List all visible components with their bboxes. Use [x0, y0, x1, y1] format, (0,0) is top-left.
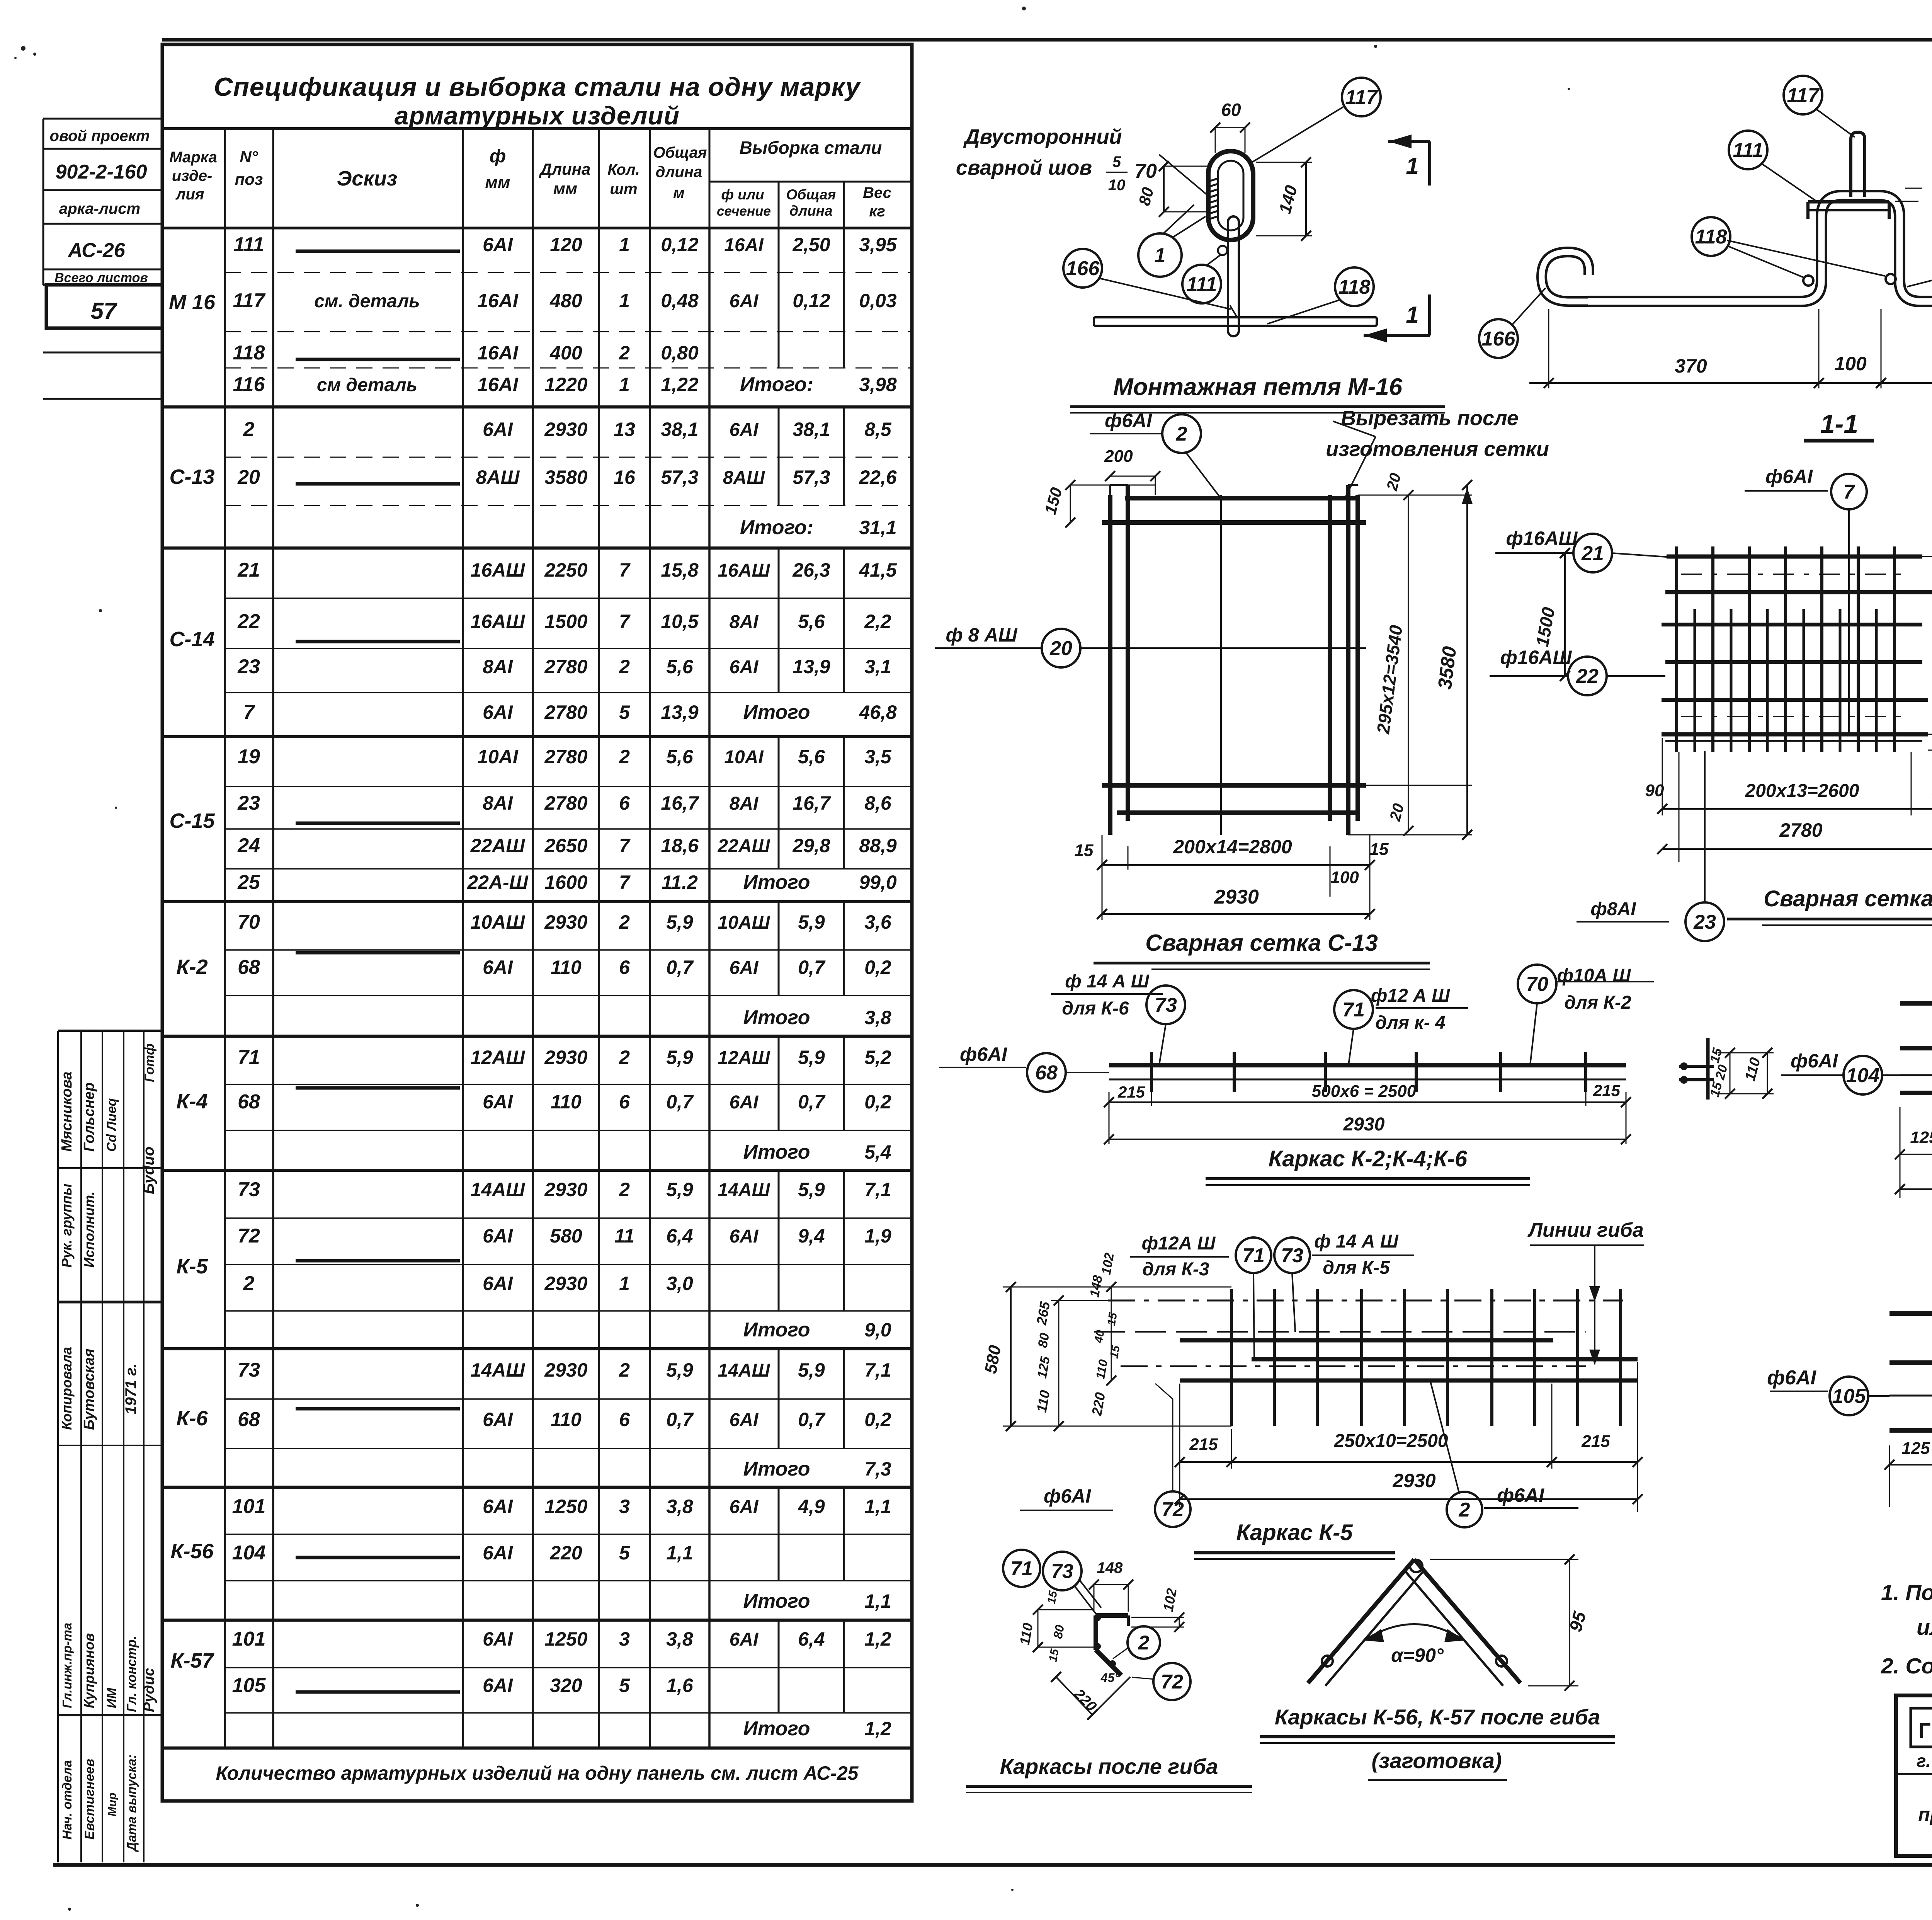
- svg-text:Сd Лueq: Сd Лueq: [104, 1098, 119, 1152]
- svg-text:Выборка стали: Выборка стали: [740, 138, 882, 158]
- svg-text:шт: шт: [610, 180, 637, 197]
- svg-text:1,2: 1,2: [864, 1718, 891, 1740]
- svg-text:7,3: 7,3: [864, 1458, 891, 1480]
- svg-text:Рук. группы: Рук. группы: [59, 1183, 75, 1268]
- svg-text:0,03: 0,03: [859, 290, 897, 311]
- svg-text:57,3: 57,3: [793, 466, 830, 488]
- svg-text:7: 7: [1844, 481, 1855, 503]
- svg-text:ф 8 АШ: ф 8 АШ: [946, 624, 1018, 646]
- K-246 bottom dims: [1104, 1081, 1631, 1144]
- svg-text:6АI: 6АI: [483, 957, 513, 978]
- label chevron: [1260, 1705, 1615, 1780]
- svg-text:ф6АI: ф6АI: [1791, 1050, 1838, 1072]
- svg-text:Итого: Итого: [743, 1717, 810, 1740]
- C-14 right dims: [1922, 519, 1932, 755]
- svg-text:38,1: 38,1: [793, 419, 830, 440]
- svg-text:Нач. отдела: Нач. отдела: [60, 1760, 74, 1840]
- svg-text:Итого: Итого: [743, 871, 810, 894]
- svg-text:68: 68: [238, 1408, 260, 1431]
- svg-text:9,4: 9,4: [798, 1225, 825, 1247]
- svg-text:Всего листов: Всего листов: [54, 271, 148, 285]
- svg-text:3580: 3580: [544, 466, 587, 488]
- svg-text:Эскиз: Эскиз: [337, 167, 398, 190]
- svg-text:29,8: 29,8: [792, 835, 830, 856]
- svg-text:Вырезать после: Вырезать после: [1341, 407, 1519, 430]
- svg-text:71: 71: [1242, 1244, 1265, 1267]
- svg-text:3: 3: [619, 1496, 630, 1517]
- svg-text:6АI: 6АI: [730, 420, 759, 440]
- svg-text:15: 15: [1370, 840, 1389, 859]
- svg-text:2930: 2930: [544, 1179, 587, 1200]
- svg-text:6АI: 6АI: [730, 291, 759, 311]
- svg-text:(заготовка): (заготовка): [1371, 1748, 1502, 1773]
- svg-text:118: 118: [1338, 276, 1371, 298]
- svg-text:1250: 1250: [544, 1496, 587, 1517]
- upper-left stamp boxes: [43, 119, 162, 399]
- svg-text:148: 148: [1097, 1559, 1123, 1576]
- C-14 bottom dims: [1645, 738, 1932, 862]
- svg-text:6АI: 6АI: [483, 1675, 513, 1696]
- svg-text:овой проект: овой проект: [50, 128, 150, 145]
- svg-text:Евстигнеев: Евстигнеев: [82, 1759, 97, 1840]
- svg-text:2930: 2930: [1392, 1470, 1435, 1491]
- table header cells: [169, 129, 912, 228]
- svg-text:46,8: 46,8: [859, 701, 897, 723]
- svg-text:70: 70: [238, 911, 260, 933]
- chevron K-56 K-57 after bending: [1308, 1554, 1590, 1691]
- K-5 bottom dims: [1175, 1362, 1643, 1512]
- svg-text:0,7: 0,7: [666, 957, 694, 978]
- welded mesh C-13 figure: [1102, 485, 1366, 835]
- svg-text:16: 16: [614, 466, 636, 488]
- note 20 mm: [1895, 144, 1932, 227]
- svg-text:Количество арматурных изделий: Количество арматурных изделий на одну па…: [216, 1762, 859, 1784]
- svg-text:1: 1: [1155, 244, 1166, 267]
- svg-text:8,6: 8,6: [864, 792, 892, 814]
- svg-text:5,6: 5,6: [666, 746, 694, 768]
- M-16 callout 166: [1063, 249, 1231, 309]
- svg-text:90: 90: [1645, 781, 1664, 800]
- svg-text:2930: 2930: [1343, 1114, 1385, 1135]
- svg-text:111: 111: [233, 233, 264, 256]
- C-13 dim 150 (left): [1041, 480, 1155, 528]
- svg-text:ф 14 А Ш: ф 14 А Ш: [1314, 1231, 1399, 1252]
- K-5 callout 72: [1020, 1384, 1190, 1527]
- svg-text:250х10=2500: 250х10=2500: [1334, 1431, 1448, 1451]
- svg-text:2: 2: [243, 1272, 255, 1295]
- svg-text:2780: 2780: [544, 656, 587, 677]
- svg-text:2. Совместно с настоящим листо: 2. Совместно с настоящим листом см. лист…: [1881, 1654, 1932, 1678]
- svg-text:арка-лист: арка-лист: [59, 200, 140, 217]
- svg-text:7: 7: [619, 559, 631, 581]
- svg-text:220: 220: [549, 1542, 582, 1564]
- svg-text:2: 2: [243, 418, 255, 441]
- svg-text:5: 5: [619, 1675, 630, 1696]
- svg-text:12АШ: 12АШ: [471, 1047, 526, 1068]
- svg-text:38,1: 38,1: [661, 419, 698, 440]
- svg-text:0,7: 0,7: [666, 1409, 694, 1430]
- svg-text:С-15: С-15: [169, 809, 215, 832]
- svg-text:3,0: 3,0: [666, 1273, 693, 1294]
- svg-text:Итого: Итого: [743, 1141, 810, 1163]
- svg-text:6АI: 6АI: [483, 1496, 513, 1517]
- svg-text:6АI: 6АI: [483, 701, 513, 723]
- svg-text:110: 110: [551, 1409, 582, 1430]
- svg-text:6АI: 6АI: [730, 1629, 759, 1650]
- table group С-15: [162, 737, 912, 902]
- svg-text:для К-5: для К-5: [1323, 1258, 1390, 1278]
- svg-text:13,9: 13,9: [661, 701, 699, 723]
- svg-text:100: 100: [1330, 868, 1359, 887]
- svg-text:Линии гиба: Линии гиба: [1527, 1219, 1644, 1241]
- svg-text:длина: длина: [656, 163, 702, 180]
- svg-text:3,8: 3,8: [864, 1007, 891, 1028]
- svg-text:7,1: 7,1: [864, 1179, 891, 1200]
- svg-text:Итого: Итого: [743, 1458, 810, 1480]
- svg-text:8АI: 8АI: [483, 792, 513, 814]
- svg-text:3,5: 3,5: [864, 746, 892, 768]
- svg-text:7: 7: [619, 835, 631, 856]
- svg-text:Двусторонний: Двусторонний: [963, 125, 1122, 148]
- svg-text:110: 110: [551, 1091, 582, 1113]
- svg-text:5,6: 5,6: [666, 656, 694, 677]
- svg-text:580: 580: [550, 1225, 582, 1247]
- svg-text:0,80: 0,80: [661, 342, 699, 364]
- svg-text:0,2: 0,2: [864, 957, 891, 978]
- svg-text:2: 2: [1176, 423, 1187, 445]
- svg-text:1,22: 1,22: [661, 374, 699, 395]
- svg-text:3,8: 3,8: [666, 1496, 693, 1517]
- svg-text:5,9: 5,9: [798, 1179, 825, 1200]
- svg-text:57: 57: [91, 298, 117, 324]
- svg-text:Готф: Готф: [142, 1043, 157, 1082]
- svg-text:1,6: 1,6: [666, 1675, 694, 1696]
- svg-text:166: 166: [1482, 328, 1516, 350]
- svg-text:мм: мм: [485, 173, 510, 192]
- 1-1 callout 117: [1784, 76, 1855, 137]
- svg-text:10АI: 10АI: [477, 746, 519, 768]
- C-14 callout 22: [1490, 647, 1665, 695]
- svg-text:104: 104: [1846, 1064, 1880, 1087]
- frame K-57 figure: [1889, 1300, 1932, 1445]
- svg-text:5,6: 5,6: [798, 746, 825, 768]
- svg-text:117: 117: [1787, 84, 1820, 107]
- svg-text:14АШ: 14АШ: [718, 1360, 770, 1381]
- svg-text:Каркас К-2;К-4;К-6: Каркас К-2;К-4;К-6: [1269, 1146, 1468, 1171]
- svg-text:166: 166: [1066, 257, 1100, 280]
- left signature stamp grid: [58, 1031, 162, 1862]
- svg-text:изде-: изде-: [172, 167, 213, 184]
- svg-text:120: 120: [550, 234, 582, 255]
- svg-text:22,6: 22,6: [859, 466, 897, 488]
- svg-text:14АШ: 14АШ: [718, 1180, 770, 1200]
- svg-text:13,9: 13,9: [793, 656, 830, 677]
- svg-text:Каркасы после гиба: Каркасы после гиба: [1000, 1754, 1218, 1779]
- svg-text:2780: 2780: [544, 746, 587, 768]
- svg-text:см деталь: см деталь: [317, 375, 417, 395]
- svg-text:26,3: 26,3: [792, 559, 830, 581]
- svg-text:25: 25: [237, 871, 260, 894]
- svg-text:6,4: 6,4: [666, 1225, 693, 1247]
- svg-text:1220: 1220: [544, 374, 587, 395]
- svg-text:16АШ: 16АШ: [471, 559, 526, 581]
- svg-text:Мясникова: Мясникова: [59, 1072, 75, 1152]
- svg-text:68: 68: [238, 956, 260, 979]
- svg-text:Рудис: Рудис: [141, 1668, 157, 1712]
- C-14 label: [1727, 886, 1932, 925]
- svg-text:6АI: 6АI: [483, 1542, 513, 1564]
- svg-text:8АI: 8АI: [730, 612, 759, 632]
- C-13 callout 20: [935, 624, 1102, 667]
- svg-text:ф16АШ: ф16АШ: [1500, 647, 1572, 668]
- svg-text:Итого: Итого: [743, 701, 810, 723]
- svg-text:6АI: 6АI: [483, 1628, 513, 1650]
- svg-text:ф10А Ш: ф10А Ш: [1557, 965, 1631, 986]
- K-246 callout 71: [1334, 986, 1468, 1065]
- K-57 callout 105: [1767, 1367, 1889, 1415]
- svg-text:8АШ: 8АШ: [476, 466, 520, 488]
- svg-text:3: 3: [619, 1628, 630, 1650]
- svg-text:2: 2: [619, 746, 630, 768]
- svg-text:Итого:: Итого:: [740, 516, 813, 539]
- svg-text:К-56: К-56: [170, 1540, 214, 1563]
- svg-text:7: 7: [243, 701, 255, 723]
- table title: [214, 72, 861, 130]
- M-16 callout 111: [1182, 255, 1221, 303]
- svg-text:2: 2: [619, 911, 630, 933]
- svg-text:23: 23: [1693, 911, 1716, 933]
- svg-text:1250: 1250: [544, 1628, 587, 1650]
- svg-text:41,5: 41,5: [859, 559, 897, 581]
- K-246 callout 70: [1518, 965, 1654, 1065]
- svg-text:45°: 45°: [1100, 1671, 1120, 1685]
- C-14 dim 1500 left: [1532, 548, 1570, 681]
- svg-text:99,0: 99,0: [859, 871, 897, 893]
- svg-text:12АШ: 12АШ: [718, 1048, 770, 1068]
- C-14 callout 23: [1577, 751, 1724, 941]
- svg-text:15,8: 15,8: [661, 559, 699, 581]
- svg-text:215: 215: [1189, 1435, 1218, 1454]
- M-16 dim 60: [1210, 100, 1250, 153]
- svg-text:К-2: К-2: [176, 955, 207, 979]
- svg-text:Итого: Итого: [743, 1590, 810, 1612]
- svg-text:для К-2: для К-2: [1564, 992, 1631, 1013]
- svg-text:0,7: 0,7: [666, 1091, 694, 1113]
- svg-text:5,9: 5,9: [666, 1179, 693, 1200]
- K-5 label: [1194, 1520, 1395, 1559]
- svg-text:Сварная сетка С-13: Сварная сетка С-13: [1145, 930, 1378, 956]
- svg-text:0,48: 0,48: [661, 290, 699, 311]
- svg-text:8АI: 8АI: [483, 656, 513, 677]
- svg-text:6АI: 6АI: [483, 419, 513, 440]
- table group С-14: [162, 548, 912, 737]
- specification table outer frame: [162, 44, 912, 1801]
- svg-text:118: 118: [233, 342, 265, 364]
- 1-1 bottom dims 370 100 370: [1529, 309, 1932, 388]
- section mark 1 bottom: [1364, 294, 1430, 342]
- svg-text:2930: 2930: [544, 1047, 587, 1068]
- svg-text:ф6АI: ф6АI: [1765, 466, 1813, 487]
- svg-text:2250: 2250: [544, 559, 587, 581]
- C-13 right dims: [1348, 480, 1473, 840]
- svg-text:110: 110: [551, 957, 582, 978]
- svg-text:6АI: 6АI: [483, 1091, 513, 1113]
- svg-text:72: 72: [1162, 1498, 1184, 1521]
- svg-text:14АШ: 14АШ: [471, 1179, 526, 1200]
- svg-text:поз: поз: [235, 170, 263, 188]
- M-16 dim 80: [1135, 161, 1207, 217]
- svg-text:71: 71: [1342, 999, 1365, 1021]
- svg-text:5,4: 5,4: [864, 1141, 891, 1163]
- svg-text:68: 68: [238, 1091, 260, 1113]
- C-13 dim 200 (top): [1104, 447, 1160, 495]
- K-5 callout 71 73: [1130, 1231, 1414, 1359]
- svg-text:0,2: 0,2: [864, 1091, 891, 1113]
- title block frame: [1896, 1695, 1932, 1856]
- svg-text:40: 40: [1092, 1329, 1107, 1345]
- K-56 bottom dims: [1895, 1107, 1932, 1198]
- svg-text:кг: кг: [869, 203, 885, 220]
- table group М 16: [162, 228, 912, 407]
- svg-text:ф или: ф или: [721, 187, 764, 203]
- svg-text:Общая: Общая: [653, 144, 707, 161]
- svg-text:73: 73: [238, 1359, 260, 1381]
- table footer note row: [216, 1762, 859, 1784]
- svg-text:6АI: 6АI: [483, 1273, 513, 1294]
- svg-text:3,1: 3,1: [864, 656, 891, 677]
- K-57 bottom dims: [1884, 1433, 1932, 1507]
- svg-text:68: 68: [1035, 1062, 1058, 1084]
- svg-text:0,7: 0,7: [798, 957, 826, 978]
- svg-text:370: 370: [1675, 355, 1707, 377]
- M-16 callout 117: [1252, 78, 1381, 162]
- svg-text:16АШ: 16АШ: [718, 560, 770, 581]
- svg-text:8АШ: 8АШ: [723, 468, 765, 488]
- svg-text:ф12 А Ш: ф12 А Ш: [1371, 986, 1450, 1006]
- svg-text:7: 7: [619, 871, 631, 893]
- section mark 1 top: [1388, 134, 1430, 186]
- section 1-1 bent bar figure: [1588, 132, 1932, 301]
- svg-text:60: 60: [1221, 100, 1241, 120]
- svg-text:16,7: 16,7: [793, 792, 831, 814]
- svg-text:Гольснер: Гольснер: [81, 1083, 97, 1152]
- svg-text:73: 73: [1051, 1560, 1073, 1583]
- svg-text:125: 125: [1901, 1439, 1930, 1458]
- svg-text:111: 111: [1733, 139, 1763, 162]
- table group К-57: [162, 1620, 912, 1748]
- svg-text:Сварная сетка С-14: Сварная сетка С-14: [1764, 886, 1932, 911]
- svg-text:Вес: Вес: [863, 184, 891, 201]
- svg-text:1. Позиция 111 приваривается к: 1. Позиция 111 приваривается к петле сва…: [1881, 1580, 1932, 1605]
- svg-text:57,3: 57,3: [661, 466, 699, 488]
- svg-text:101: 101: [232, 1495, 266, 1518]
- svg-text:80: 80: [1035, 1332, 1052, 1349]
- svg-text:19: 19: [238, 746, 260, 768]
- svg-text:ф6АI: ф6АI: [1105, 410, 1152, 431]
- svg-text:1500: 1500: [544, 611, 587, 632]
- svg-text:5,2: 5,2: [864, 1047, 891, 1068]
- svg-text:6АI: 6АI: [730, 1092, 759, 1113]
- table body vertical gridlines: [225, 228, 709, 1748]
- svg-text:ф8АI: ф8АI: [1590, 899, 1636, 919]
- svg-text:2,50: 2,50: [792, 234, 830, 255]
- C-13 cut note: [1326, 407, 1549, 499]
- title block org name: [1911, 1708, 1932, 1850]
- svg-text:ф6АI: ф6АI: [960, 1043, 1007, 1065]
- svg-text:117: 117: [1345, 86, 1378, 109]
- svg-text:Дата выпуска:: Дата выпуска:: [124, 1755, 139, 1853]
- svg-text:М 16: М 16: [169, 291, 216, 314]
- svg-text:116: 116: [233, 373, 265, 396]
- svg-text:2: 2: [1138, 1632, 1150, 1654]
- svg-text:6: 6: [619, 1409, 630, 1430]
- svg-text:22: 22: [237, 610, 260, 633]
- svg-text:1,9: 1,9: [864, 1225, 891, 1247]
- svg-text:6,4: 6,4: [798, 1628, 825, 1650]
- svg-text:5: 5: [1112, 153, 1121, 170]
- frame K-2 K-4 K-6 figure: [1109, 1052, 1626, 1092]
- svg-text:215: 215: [1593, 1081, 1621, 1100]
- svg-text:500х6 = 2500: 500х6 = 2500: [1312, 1082, 1417, 1101]
- M-16 figure label: [1070, 374, 1445, 413]
- svg-text:6АI: 6АI: [730, 1226, 759, 1247]
- svg-text:для К-6: для К-6: [1062, 998, 1129, 1019]
- svg-text:6АI: 6АI: [483, 234, 513, 255]
- svg-text:см. деталь: см. деталь: [314, 291, 420, 311]
- C-13 label: [1094, 930, 1430, 969]
- svg-text:10АШ: 10АШ: [471, 911, 526, 933]
- svg-text:20: 20: [237, 466, 260, 489]
- svg-text:18,6: 18,6: [661, 835, 699, 856]
- svg-text:10АI: 10АI: [724, 747, 764, 768]
- svg-text:70: 70: [1134, 160, 1157, 182]
- svg-text:100: 100: [1834, 353, 1867, 374]
- svg-text:1: 1: [1406, 153, 1418, 179]
- svg-text:2: 2: [619, 656, 630, 677]
- svg-text:88,9: 88,9: [859, 835, 897, 856]
- svg-text:6АI: 6АI: [730, 958, 759, 978]
- svg-text:3,8: 3,8: [666, 1628, 693, 1650]
- svg-text:480: 480: [549, 290, 582, 311]
- note 2: [1881, 1654, 1932, 1678]
- svg-text:ф6АI: ф6АI: [1767, 1367, 1816, 1389]
- svg-text:Итого: Итого: [743, 1319, 810, 1341]
- svg-text:24: 24: [237, 834, 260, 857]
- svg-text:0,12: 0,12: [661, 234, 699, 255]
- svg-text:ф6АI: ф6АI: [1044, 1485, 1091, 1507]
- svg-text:215: 215: [1117, 1083, 1145, 1101]
- svg-text:ИМ: ИМ: [104, 1688, 119, 1708]
- svg-text:22: 22: [1576, 665, 1599, 688]
- svg-text:Марка: Марка: [169, 149, 217, 166]
- svg-text:1: 1: [619, 234, 630, 255]
- table group С-13: [162, 407, 912, 548]
- svg-text:изготовления сетки: изготовления сетки: [1326, 437, 1549, 461]
- svg-text:Общая: Общая: [786, 187, 836, 203]
- svg-text:22АШ: 22АШ: [470, 835, 526, 856]
- svg-text:2: 2: [619, 1047, 630, 1068]
- svg-text:16АШ: 16АШ: [471, 611, 526, 632]
- svg-text:16АI: 16АI: [477, 374, 519, 395]
- svg-text:125: 125: [1910, 1128, 1932, 1147]
- svg-text:2930: 2930: [544, 419, 587, 440]
- svg-text:105: 105: [1832, 1385, 1866, 1408]
- table group К-56: [162, 1487, 912, 1620]
- svg-text:6: 6: [619, 957, 630, 978]
- svg-text:для к- 4: для к- 4: [1375, 1013, 1445, 1033]
- C-13 callout 2: [1090, 410, 1221, 499]
- svg-text:5,9: 5,9: [798, 911, 825, 933]
